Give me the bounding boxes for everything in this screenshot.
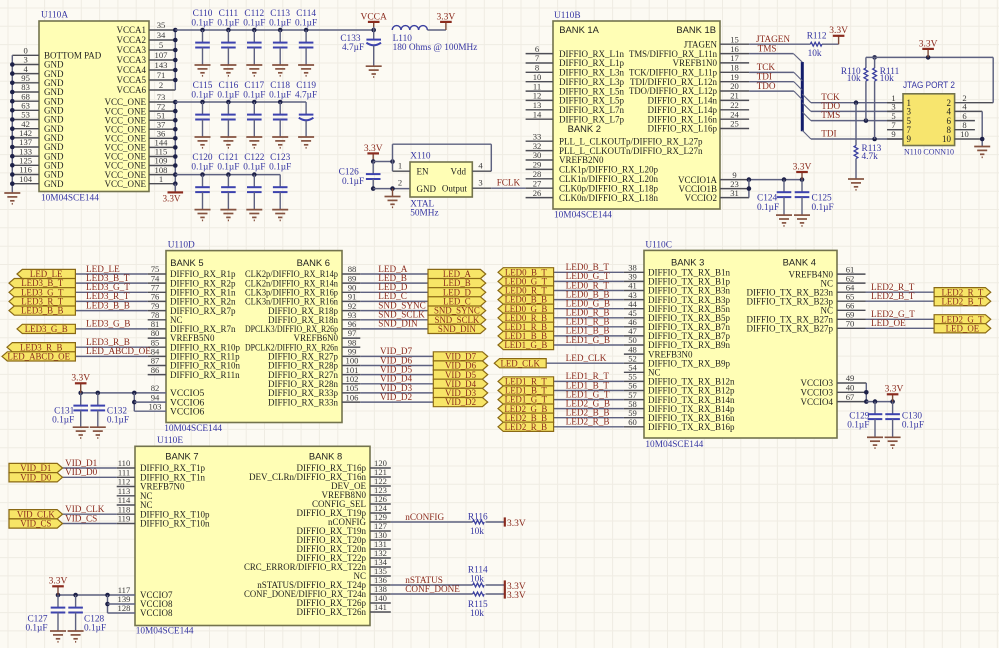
U110E pin 124 (DIFFIO_RX_T19p) [296,503,390,518]
net label LED2_R_T [871,282,915,292]
U110A pin 35 (VCCA1) [116,20,175,35]
svg-text:FCLK: FCLK [497,178,521,188]
U110B pin 9 (VCCIO1A) [678,170,749,185]
svg-text:0.1µF: 0.1µF [269,163,291,173]
U110E pin 119 (DIFFIO_RX_T10n) [117,514,210,529]
node VCCA junction [371,28,376,33]
port LED0_R_T [498,286,554,296]
net label VID_CLK [65,504,105,514]
svg-text:LED2_B_T: LED2_B_T [871,291,915,301]
capacitor C126 0.1uF [339,162,381,189]
connector N110 CONN10 body (JTAG PORT 2) [903,80,955,156]
capacitor C123 0.1uF [269,153,291,210]
wire R115 to 3.3V bar [486,593,505,595]
wire SND_SYNC from U110D [360,310,428,312]
U110B pin 22 (DIFFIO_RX_L14p) [647,100,749,115]
U110C pin 65 (DIFFIO_TX_RX_B23p) [746,291,865,306]
net label LED3_B_B [86,300,130,310]
wire TDI to bus [749,81,794,83]
svg-text:3.3V: 3.3V [364,144,383,154]
port LED2_R_T [934,287,991,297]
X110 pin 4 (Vdd) [451,160,492,176]
U110D pin 75 (DIFFIO_RX_R1p) [148,264,236,279]
ground below C120 [195,210,211,221]
U110A pin 53 (GND) [12,110,64,125]
svg-text:GND: GND [44,179,64,189]
N110 pin 5 (left) [887,111,912,126]
capacitor C132 0.1uF [91,393,130,427]
U110B pin 15 (JTAGEN) [684,34,749,49]
U110E pin 111 (DIFFIO_RX_T1n) [117,468,206,483]
U110B pin 25 (DIFFIO_RX_L16p) [647,119,749,134]
U110E pin 120 (DIFFIO_RX_T16p) [296,458,390,473]
U110A pin 116 (GND) [12,165,64,180]
U110E pin 132 (DIFFIO_RX_T22p) [296,548,390,563]
wire LED1_B_T to U110C [554,390,624,392]
oscillator X110 body [410,152,472,219]
net label LED_CLK [566,353,607,363]
net label TDO (connector side) [821,101,840,111]
net label LED0_R_B [566,308,610,318]
port LED3_G_T [9,287,75,297]
capacitor C124 0.1uF [757,180,791,216]
capacitor C114 0.1uF [295,9,317,65]
U110C pin 62 (NC) [820,273,865,288]
net label LED3_G_T [86,282,130,292]
svg-text:SND_DIN: SND_DIN [438,324,477,334]
U110A pin 142 (GND) [12,128,64,143]
ground below C131 [73,427,89,438]
svg-text:C126: C126 [339,167,359,177]
U110C pin 49 (VCCIO3) [800,373,866,388]
net label VID_D2 [380,392,413,402]
svg-text:60: 60 [628,417,637,427]
wire FCLK net [491,187,525,189]
svg-text:DIFFIO_TX_RX_B16p: DIFFIO_TX_RX_B16p [648,422,735,432]
power port 3.3V above JTAG connector [919,39,938,57]
svg-text:31: 31 [730,188,739,198]
U110C pin 54 (NC) [624,363,661,378]
svg-text:LED_OE: LED_OE [871,318,906,328]
U110D pin 105 (DIFFIO_RX_R33p) [268,383,360,398]
svg-text:LED3_B_B: LED3_B_B [86,300,130,310]
net label nCONFIG [405,512,444,522]
svg-text:TMS: TMS [758,43,777,53]
ground below R113 [848,179,864,190]
net label TMS (U110B side) [758,43,777,53]
ground below C133 [366,66,382,77]
wire R116 to 3.3V bar [486,521,505,523]
power port 3.3V right of R115 [505,589,526,601]
wire SND_DIN from U110D [360,328,428,330]
port LED0_B_T [498,267,554,277]
net label LED_C [378,291,407,301]
wire VCC_ONE vertical bus [173,100,178,193]
U110C pin 64 (DIFFIO_TX_RX_B23n) [746,282,865,297]
wire VCC_ONE rail (row 2) [175,100,306,105]
U110D pin 82 (VCCIO5) [151,383,205,399]
svg-text:VCCA5: VCCA5 [116,75,146,85]
svg-text:0.1µF: 0.1µF [269,91,291,101]
svg-text:3.3V: 3.3V [71,374,90,384]
port SND_SYNC [428,306,486,316]
IC U110A body [39,11,149,204]
svg-text:0.1µF: 0.1µF [25,624,47,634]
svg-text:119: 119 [118,514,131,524]
svg-text:SND_DIN: SND_DIN [378,319,418,329]
U110C pin 46 (DIFFIO_TX_RX_B7n) [624,317,731,332]
net label LED1_G_T [566,389,610,399]
svg-text:VCCIO8: VCCIO8 [140,608,173,618]
U110D pin 91 (CLK3n/DIFFIO_RX_R16n) [245,292,360,307]
port LED0_B_B [498,295,554,305]
svg-text:143: 143 [155,60,168,70]
svg-text:103: 103 [149,401,162,411]
ground below C116 [220,137,236,148]
svg-text:EN: EN [417,166,429,176]
net label LED1_G_B [566,335,610,345]
wire VCCA vertical bus [173,28,178,90]
port LED3_R_T [9,297,75,307]
svg-text:LED3_G_B: LED3_G_B [86,319,130,329]
net label LED3_R_B [86,337,130,347]
svg-text:3.3V: 3.3V [49,577,68,587]
wire VCCA rail (top) [175,28,373,33]
svg-text:1: 1 [398,160,402,170]
svg-text:BANK 1A: BANK 1A [559,24,599,35]
wire VID_D5 from U110D [360,374,433,376]
svg-text:106: 106 [346,392,360,402]
U110E pin 114 (NC) [117,495,153,510]
capacitor C113 0.1uF [269,9,291,65]
svg-text:C113: C113 [270,9,290,19]
wire TMS to bus [749,53,793,55]
svg-text:VID_CS: VID_CS [20,519,51,529]
U110B pin 32 (PLL_L_CLKOUTn/DIFFIO_RX_L27n) [526,141,703,156]
svg-text:0.1µF: 0.1µF [191,19,213,29]
wire LED_B from U110D [360,282,428,284]
wire LED3_G_B to U110D [75,328,147,330]
wire LED3_G_T to U110D [75,291,147,293]
port VID_D5 [433,370,487,380]
svg-text:R116: R116 [468,512,488,522]
U110D pin 74 (DIFFIO_RX_R2p) [148,273,236,288]
U110B pin 20 (TDO/DIFFIO_RX_L12p) [629,81,749,96]
svg-text:10k: 10k [808,49,822,59]
svg-text:LED1_G_B: LED1_G_B [566,335,610,345]
port LED2_R_B [498,422,554,432]
svg-text:LED2_B_T: LED2_B_T [941,296,983,306]
U110A pin 144 (VCC_ONE) [104,138,175,153]
svg-text:4: 4 [478,160,483,170]
wire LED3_R_B to U110D [75,346,147,348]
port LED_B [428,278,486,288]
U110C pin 45 (DIFFIO_TX_RX_B5p) [624,308,731,323]
U110B pin 30 (VREFB2N0) [526,150,604,165]
U110D pin 96 (DPCLK3/DIFFIO_RX_R26p) [245,319,360,334]
svg-text:10k: 10k [470,575,484,585]
svg-text:GND: GND [417,184,437,194]
net label JTAGEN [756,34,790,44]
U110A pin 125 (GND) [12,156,64,171]
ground below C110 [195,65,211,76]
svg-text:10M04SCE144: 10M04SCE144 [136,627,194,637]
net label LED2_G_T [871,309,915,319]
port LED_OE [934,323,991,333]
svg-text:VID_D2: VID_D2 [380,392,413,402]
capacitor C125 0.1uF [795,180,834,216]
svg-text:LED_ABCD_OE: LED_ABCD_OE [86,346,151,356]
U110A pin 37 (VCC_ONE) [104,119,175,134]
U110A pin 2 (VCCA6) [116,80,175,95]
svg-text:C118: C118 [270,81,290,91]
U110E pin 130 (DIFFIO_RX_T20p) [296,530,390,545]
bus entry TCK [794,72,802,81]
U110D pin 94 (VCCIO6) [151,392,205,408]
U110E pin 123 (VREFB8N0) [321,485,390,500]
svg-text:3.3V: 3.3V [507,591,526,601]
wire TDO to connector pin 3 [811,110,903,112]
ground below C112 [246,65,262,76]
svg-text:70: 70 [846,319,855,329]
wire nCONFIG net [391,521,473,523]
svg-text:C121: C121 [218,153,238,163]
svg-text:VCC_ONE: VCC_ONE [104,179,146,189]
svg-text:TDO: TDO [757,81,776,91]
net label LED_D [378,282,407,292]
U110C pin 52 (DIFFIO_TX_RX_B9p) [624,353,731,368]
svg-text:VCCA6: VCCA6 [116,85,146,95]
svg-text:X110: X110 [410,152,431,162]
U110A pin 109 (VCC_ONE) [104,156,175,171]
U110B pin 7 (DIFFIO_RX_L1p) [526,53,625,68]
svg-text:0.1µF: 0.1µF [269,19,291,29]
port LED_ABCD_OE [2,352,75,362]
port LED_LE [17,269,75,279]
U110C pin 57 (DIFFIO_TX_RX_B14n) [624,390,735,405]
svg-text:VCCIO6: VCCIO6 [170,407,205,417]
U110E BANK 7 title [165,451,198,462]
wire LED0_G_B to U110C [554,308,624,310]
U110A pin 68 (GND) [12,91,64,106]
svg-text:BANK 6: BANK 6 [297,257,330,268]
U110A pin 137 (GND) [12,137,64,152]
svg-text:BANK 7: BANK 7 [165,451,198,462]
capacitor C121 0.1uF [217,153,239,210]
svg-text:141: 141 [374,602,387,612]
net label TCK (connector side) [821,92,840,102]
svg-text:10M04SCE144: 10M04SCE144 [554,211,612,221]
svg-text:LED3_B_B: LED3_B_B [21,306,63,316]
N110 pin 6 (right) [947,111,975,126]
wire LED_LE to U110D [75,273,147,275]
svg-text:104: 104 [19,174,33,184]
X110 pin 3 (Output) [442,177,491,193]
svg-text:0.1µF: 0.1µF [243,163,265,173]
U110C pin 44 (DIFFIO_TX_RX_B5n) [624,299,731,314]
port LED1_G_T [498,395,554,405]
svg-text:0.1µF: 0.1µF [812,203,834,213]
svg-text:TMS: TMS [821,110,840,120]
inductor L110 180 Ohms @ 100MHz [392,26,477,53]
svg-text:C122: C122 [244,153,264,163]
port VID_D2 [433,397,487,407]
U110A pin 63 (GND) [12,101,64,116]
U110D pin 78 (NC) [148,310,183,325]
ground symbol below U110A GND bus [4,193,20,204]
wire LED3_R_T to U110D [75,300,147,302]
X110 pin 1 (EN) [393,160,429,176]
svg-text:25: 25 [730,119,739,129]
net label LED0_G_B [566,299,610,309]
svg-text:34: 34 [157,30,166,40]
net label LED2_B_T [871,291,915,301]
wire VID_D1 to U110E [63,467,117,469]
net label VID_CS [65,513,97,523]
svg-text:DIFFIO_TX_RX_B27p: DIFFIO_TX_RX_B27p [746,324,833,334]
port LED3_G_B [17,324,75,334]
U110E pin 110 (DIFFIO_RX_T1p) [117,458,206,473]
resistor R113 4.7k (TCK pulldown) [854,103,882,179]
U110E pin 118 (DIFFIO_RX_T10p) [117,504,210,519]
capacitor C133 4.7uF [340,27,381,66]
capacitor C111 0.1uF [217,9,239,65]
ground below C124 [776,215,792,226]
port LED0_R_B [498,313,554,323]
wire LED1_G_B to U110C [554,344,624,346]
power port 3.3V right of R114 [505,580,526,592]
wire LED_A from U110D [360,273,428,275]
svg-text:67: 67 [846,392,855,402]
wire R112 to 3.3V [822,43,839,45]
svg-text:VID_D0: VID_D0 [65,467,98,477]
svg-text:0.1µF: 0.1µF [847,421,869,431]
power port VCCA [360,12,387,30]
resistor R110 10k (TMS pullup) [841,57,868,120]
resistor R115 10k [468,592,488,619]
wire VID_D7 from U110D [360,355,433,357]
bus exit TMS [802,112,811,121]
net label LED0_B_T [566,262,610,272]
U110D pin 103 (VCCIO6) [149,401,205,417]
bus entry TMS [793,54,802,63]
port LED0_G_T [498,277,554,287]
U110A pin 1 (VCC_ONE) [104,174,175,189]
port VID_D6 [433,361,487,371]
wire VCCIO3/4 joining vertical (U110C) [864,383,869,404]
U110A pin 107 (VCCA3) [116,50,175,65]
U110B pin 31 (VCCIO2) [684,188,749,203]
U110D BANK 6 title [297,257,330,268]
wire LED_OE from U110C [866,327,935,329]
svg-text:0.1µF: 0.1µF [757,203,779,213]
capacitor C115 0.1uF [191,81,213,137]
svg-text:C119: C119 [296,81,316,91]
U110E pin 112 (VREFB7N0) [117,477,185,492]
svg-text:C110: C110 [193,9,213,19]
U110D pin 93 (DIFFIO_RX_R18n) [268,310,360,325]
svg-text:LED1_G_B: LED1_G_B [504,340,547,350]
resistor R112 10k [807,31,827,59]
port LED3_B_T [9,278,75,288]
wire LED_C from U110D [360,300,428,302]
net label LED3_R_T [86,291,130,301]
net label LED0_R_T [566,280,610,290]
svg-text:U110C: U110C [645,241,672,251]
svg-text:10: 10 [942,134,952,144]
capacitor C118 0.1uF [269,81,291,137]
U110D pin 106 (DIFFIO_RX_R33n) [268,392,360,407]
U110A pin 42 (GND) [12,119,64,134]
bus exit TDO [802,103,811,112]
U110A pin 95 (GND) [12,73,64,88]
ground below X110 GND net [385,189,401,208]
U110E pin 117 (VCCIO7) [118,585,173,600]
U110E pin 129 (nCONFIG) [328,512,391,527]
svg-text:3.3V: 3.3V [162,194,180,204]
ground below C121 [220,210,236,221]
power port 3.3V right of L110 [437,12,456,30]
svg-text:C111: C111 [219,9,239,19]
net label nSTATUS [405,575,443,585]
wire LED_D from U110D [360,291,428,293]
ground below C113 [272,65,288,76]
bus entry TDI [794,82,802,91]
net label LED_OE [871,318,906,328]
svg-text:CONF_DONE: CONF_DONE [405,584,460,594]
ground below C111 [220,65,236,76]
port VID_D0 [9,472,63,482]
svg-text:10k: 10k [470,527,484,537]
net label CONF_DONE [405,584,460,594]
U110B BANK 2 title [568,123,601,134]
U110E pin 138 (CONF_DONE/DIFFIO_RX_T24n) [244,584,391,599]
wire 3.3V to connector pin 2 [992,57,994,102]
port LED0_G_B [498,304,554,314]
svg-text:9: 9 [891,129,895,139]
U110E pin 128 (VCCIO8) [118,603,173,618]
svg-text:C117: C117 [244,81,264,91]
capacitor C128 0.1uF [68,595,106,634]
ground below C115 [195,137,211,148]
N110 pin 9 (left) [887,129,912,144]
net label VID_D5 [380,364,413,374]
net label LED_ABCD_OE [86,346,151,356]
svg-text:BANK 2: BANK 2 [568,123,601,134]
power port 3.3V above C131 [71,374,90,393]
wire TDI to connector pin 9 [811,137,903,142]
svg-text:JTAG PORT 2: JTAG PORT 2 [903,80,955,90]
U110A pin 3 (GND) [12,55,64,70]
svg-text:BANK 4: BANK 4 [783,257,816,268]
bus exit TCK [802,94,811,103]
net label LED3_B_T [86,273,130,283]
net label VID_D0 [65,467,98,477]
net label LED3_G_B [86,319,130,329]
U110D pin 99 (DIFFIO_RX_R27p) [268,347,360,362]
wire 3.3V node to EN branch [373,159,395,164]
U110C pin 70 (DIFFIO_TX_RX_B27p) [746,319,865,334]
svg-text:10M04SCE144: 10M04SCE144 [41,194,99,204]
net label LED1_R_B [566,317,610,327]
svg-text:0.1µF: 0.1µF [217,91,239,101]
port LED_D [428,287,486,297]
svg-text:3.3V: 3.3V [507,519,526,529]
svg-text:VCCA3: VCCA3 [116,45,146,55]
U110A pin 5 (VCCA3) [116,40,175,55]
capacitor C117 0.1uF [243,81,265,137]
U110C pin 56 (DIFFIO_TX_RX_B12p) [624,381,735,396]
